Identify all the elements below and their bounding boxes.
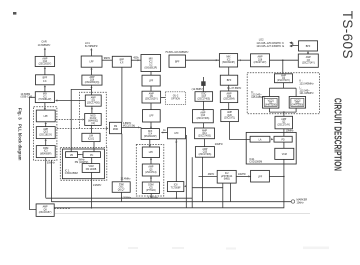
svg-text:(2SC2954(O)): (2SC2954(O)) <box>85 82 100 84</box>
svg-text:Q5: Q5 <box>149 169 153 171</box>
dashed VCO unit enclosure D4 <box>247 73 319 114</box>
wire PC to VCM <box>91 158 93 164</box>
amplifier AMP Q1 <box>85 95 101 106</box>
svg-text:(2SC2714): (2SC2714) <box>145 172 156 174</box>
svg-text:(X40-3290): (X40-3290) <box>292 104 304 106</box>
bus line 1 <box>46 197 193 199</box>
divider DDM IC3 <box>36 146 55 158</box>
amplifier AMP Q13 <box>193 110 214 123</box>
filter LPF <box>142 75 160 86</box>
amplifier AMP Q14 <box>35 56 54 66</box>
svg-text:Q20: Q20 <box>227 115 232 117</box>
svg-text:10kHz: 10kHz <box>297 201 305 204</box>
wire PLL IC out <box>54 159 284 207</box>
svg-text:CXD1058M: CXD1058M <box>65 172 78 175</box>
svg-text:36~37.5MHz: 36~37.5MHz <box>227 87 242 90</box>
amplifier AMP Q2 <box>275 116 293 129</box>
wire <box>91 69 93 75</box>
svg-text:AMP: AMP <box>200 111 205 114</box>
svg-text:LPF: LPF <box>258 176 263 178</box>
wire MIX IC4 to LPF <box>161 132 167 134</box>
svg-text:61.595MHz: 61.595MHz <box>85 45 99 48</box>
wire col A drop <box>202 157 204 202</box>
wire dashed link to MOD <box>56 119 83 121</box>
svg-text:BPF: BPF <box>175 61 180 63</box>
svg-text:(2SC1740S): (2SC1740S) <box>87 103 100 105</box>
svg-text:MIX: MIX <box>149 58 154 60</box>
wire <box>91 125 93 133</box>
wire LPF-IC8 column <box>175 139 177 182</box>
vco VCO1 <box>263 97 279 109</box>
oscillator X'tal OSC <box>112 182 130 193</box>
wire CPU drops <box>222 183 224 208</box>
svg-text:32.4MHz: 32.4MHz <box>120 177 131 180</box>
svg-text:AMP: AMP <box>43 206 48 209</box>
svg-text:123.045MHz: 123.045MHz <box>299 82 314 85</box>
filter LPF right of MIX IC4 <box>168 128 186 139</box>
amplifier AMP Q18 <box>251 54 270 67</box>
svg-text:(PT7022): (PT7022) <box>146 190 156 192</box>
filter LPF (LO1) <box>81 56 102 67</box>
dashed unit enclosure D2 <box>79 92 106 147</box>
wire <box>204 139 206 147</box>
wire CPU to LPF <box>236 175 250 177</box>
wire <box>150 176 152 182</box>
switch IC8 <box>167 182 183 192</box>
wire BPF down to FM MOD <box>121 67 123 122</box>
filter LPF 3 <box>142 147 159 158</box>
wire into PLL IC <box>283 129 285 137</box>
svg-text:1/2MHz: 1/2MHz <box>93 184 102 187</box>
filter BPF C.F <box>36 75 55 85</box>
filter LPF (CPU) <box>251 170 270 182</box>
svg-text:PLL block diagram: PLL block diagram <box>18 124 23 161</box>
wire <box>150 122 152 129</box>
wire right rail into IC8 <box>185 135 187 208</box>
svg-text:Q2: Q2 <box>282 122 286 124</box>
svg-text:LPF: LPF <box>149 152 154 154</box>
filter BPF (colB) <box>220 75 237 85</box>
svg-text:(2SC1815Y): (2SC1815Y) <box>145 99 158 101</box>
svg-text:BPF: BPF <box>227 80 232 82</box>
svg-text:10MHz: 10MHz <box>238 173 247 176</box>
svg-text:1/2: 1/2 <box>149 64 153 66</box>
vco VCM block <box>275 148 294 159</box>
faint fold line <box>55 213 310 215</box>
svg-text:4MHz: 4MHz <box>208 173 215 176</box>
filter LPF <box>36 110 55 122</box>
wire MIX input from left rail <box>30 97 37 209</box>
prescaler PC <box>83 152 101 158</box>
node junction under Q16 <box>91 85 93 95</box>
svg-text:(12.8MHz): (12.8MHz) <box>192 88 204 91</box>
svg-text:FM: FM <box>114 126 117 128</box>
wire Q20 to PLL IC <box>230 122 251 140</box>
mixer MIX IC4 <box>141 129 159 140</box>
svg-text:LA: LA <box>259 139 262 142</box>
svg-text:IC3: IC3 <box>44 151 48 153</box>
svg-text:AMP: AMP <box>227 92 232 95</box>
svg-text:123.045~127.045MHz :E: 123.045~127.045MHz :E <box>256 45 284 48</box>
svg-text:Q15: Q15 <box>44 132 49 134</box>
wire VR-PC arrow <box>78 154 82 156</box>
wire IC8 out drop <box>175 192 177 199</box>
svg-text:C.F.: C.F. <box>43 81 47 83</box>
divider DDM IC5 <box>142 182 159 194</box>
limiter LIM IC101 <box>82 133 100 141</box>
svg-text:Q18: Q18 <box>258 59 263 61</box>
svg-text:1k: 1k <box>163 129 166 132</box>
wire <box>45 123 47 126</box>
phase comp VR <box>66 152 78 158</box>
svg-text:GU-2: GU-2 <box>173 96 179 98</box>
svg-text:AMP: AMP <box>258 56 263 59</box>
filter BPF (wide) <box>169 55 186 67</box>
svg-text:9MHz: 9MHz <box>104 57 111 60</box>
svg-text:(2SC1971): (2SC1971) <box>224 118 235 120</box>
arrow <box>271 138 273 140</box>
wire AMP Q9 to GU-2 <box>161 97 166 99</box>
modulator FM MOD <box>110 122 122 133</box>
svg-text:AMP: AMP <box>149 92 154 95</box>
wire <box>228 103 230 110</box>
wire <box>307 53 309 55</box>
svg-text:VCM: VCM <box>282 154 287 156</box>
wire second drop <box>50 160 52 202</box>
mixer MIX IC1 <box>35 92 54 103</box>
svg-text:(X40-3290): (X40-3290) <box>265 104 277 106</box>
dashed unit enclosure D3 <box>136 145 164 197</box>
wire <box>44 68 46 75</box>
svg-text:(2SC2954): (2SC2954) <box>223 99 234 101</box>
wire <box>150 103 152 110</box>
svg-text:AMP: AMP <box>43 128 48 131</box>
svg-text:TS-60S: TS-60S <box>340 11 355 59</box>
svg-text:(×2): (×2) <box>91 122 95 125</box>
phase det PD <box>274 136 292 142</box>
svg-text:IC101: IC101 <box>88 138 95 140</box>
wire AMP Q18 to BPF/VCO <box>270 59 299 61</box>
svg-text:BPF: BPF <box>306 46 311 48</box>
amplifier AMP Q8 <box>36 204 54 217</box>
wire <box>150 72 152 76</box>
svg-text:LPF: LPF <box>89 62 94 64</box>
mixer MIX IC6 <box>219 54 237 67</box>
wire <box>203 101 205 109</box>
svg-text:(2SC1740S): (2SC1740S) <box>197 99 210 101</box>
page corner mark <box>13 12 16 15</box>
svg-text:TC7S66F: TC7S66F <box>171 188 181 190</box>
svg-text:Q8: Q8 <box>44 209 48 211</box>
svg-text:(SSB·CW): (SSB·CW) <box>21 95 33 98</box>
svg-text:BPF: BPF <box>43 78 48 80</box>
svg-text:µPD78C14: µPD78C14 <box>221 176 233 178</box>
wire FM MOD to MIX IC4 <box>122 126 142 128</box>
wire arrow up to LO1 <box>90 50 92 57</box>
amplifier AMP Q15 <box>36 127 55 139</box>
svg-text:(2SC1740S): (2SC1740S) <box>199 154 212 156</box>
bleed-through smudges <box>128 247 329 250</box>
svg-text:121.045MHz: 121.045MHz <box>299 92 314 95</box>
wire PLL out to bus <box>91 172 93 207</box>
wire DDM out to bus <box>45 158 47 198</box>
svg-text:Q3: Q3 <box>307 60 311 62</box>
svg-text:(2SC1740S): (2SC1740S) <box>197 118 210 120</box>
filter BPF (top right) <box>299 41 318 51</box>
svg-text:DDM: DDM <box>148 185 153 187</box>
svg-text:(SN16913P): (SN16913P) <box>144 136 157 138</box>
wire BPF to MIX IC2 with label <box>131 59 141 61</box>
amplifier AMP Q5 <box>142 164 159 176</box>
wire to CPU <box>191 157 193 208</box>
svg-text:PC: PC <box>90 155 94 157</box>
svg-text:(2SC1815Y): (2SC1815Y) <box>39 212 52 214</box>
svg-text:LPF: LPF <box>174 133 179 135</box>
amplifier AMP Q14b <box>195 128 215 139</box>
dashed control line into FM MOD <box>57 127 108 129</box>
svg-text:BPF: BPF <box>120 60 125 62</box>
svg-text:IC2: IC2 <box>149 61 153 63</box>
wire arrow up to CAR <box>44 49 46 57</box>
svg-text:X.F.: X.F. <box>120 63 124 65</box>
svg-text:AMP: AMP <box>42 57 47 60</box>
svg-text:(SN16913P): (SN16913P) <box>222 62 235 64</box>
crystal X1 12.8MHz <box>202 77 204 92</box>
cpu IC2 <box>217 170 236 183</box>
svg-text:(2SC1740S): (2SC1740S) <box>198 136 211 138</box>
wire LIM to PC <box>93 142 95 152</box>
option GU-2 <box>165 92 185 105</box>
wire MIX to LPF <box>44 103 46 109</box>
svg-text:(2SC2714Y): (2SC2714Y) <box>254 62 267 64</box>
svg-text:CXD1000M: CXD1000M <box>249 161 262 164</box>
wire DDM out <box>150 194 152 199</box>
vco VCO2 <box>289 97 305 109</box>
amplifier AMP Q20 <box>221 110 239 122</box>
amplifier AMP Q10 <box>220 91 237 103</box>
dashed unit enclosure D1 <box>34 107 57 160</box>
svg-text:AMP: AMP <box>227 111 232 114</box>
svg-text:455k: 455k <box>133 57 139 60</box>
svg-text:IC2: IC2 <box>225 173 229 175</box>
svg-text:(M54959P): (M54959P) <box>40 153 52 155</box>
vco VCM block col2 <box>82 164 100 173</box>
svg-text:AMP: AMP <box>90 76 95 79</box>
wire <box>283 142 285 148</box>
wire arrows to LO2 <box>291 42 293 44</box>
svg-text:AMP: AMP <box>202 129 207 132</box>
wire <box>228 85 230 91</box>
amplifier AMP Q4 <box>275 74 293 83</box>
filter LPF 2 <box>143 110 161 122</box>
filter BPF (9MHz) <box>112 56 131 67</box>
wire LPF to BPF with label <box>102 59 112 61</box>
svg-text:MOD: MOD <box>113 129 119 131</box>
svg-text:Q13: Q13 <box>201 115 206 117</box>
wire BPF to MIX (colB) <box>186 59 220 61</box>
svg-text:(2SC1815Y): (2SC1815Y) <box>39 134 52 136</box>
svg-text:(SN16913P): (SN16913P) <box>144 67 157 69</box>
wire MIX IC4 into D3 <box>149 139 151 147</box>
wire <box>150 158 152 165</box>
marker circle <box>291 200 294 203</box>
svg-text:AMP: AMP <box>148 166 153 169</box>
wire <box>228 67 230 75</box>
svg-text:PD: PD <box>281 140 285 142</box>
svg-text:75.845~103.845MHz: 75.845~103.845MHz <box>165 51 189 54</box>
oscillator OSC Q17 <box>195 92 213 102</box>
svg-text:IC3: IC3 <box>227 59 231 61</box>
amplifier AMP Q16 <box>82 75 102 85</box>
wire AMP Q8 out dashed <box>54 207 70 209</box>
svg-text:AMP: AMP <box>91 96 96 99</box>
modulator MOD D1 <box>85 114 102 126</box>
svg-text:DDM: DDM <box>43 148 48 150</box>
amplifier AMP Q9 <box>142 91 161 103</box>
svg-text:(M65): (M65) <box>224 179 230 181</box>
svg-text:Q6.Q7: Q6.Q7 <box>118 189 125 191</box>
svg-text:OSC: OSC <box>119 187 124 189</box>
svg-text:Fig. 3: Fig. 3 <box>18 108 23 120</box>
PLL IC container <box>246 132 296 164</box>
PLL unit box <box>62 149 104 179</box>
svg-text:LIM: LIM <box>89 135 93 137</box>
bus line 2 to marker <box>51 201 291 203</box>
svg-text:AMP: AMP <box>202 148 207 151</box>
mixer MIX IC2 <box>141 55 161 72</box>
svg-text:IC8: IC8 <box>174 185 178 187</box>
svg-text:MIX: MIX <box>226 57 231 59</box>
svg-text:OPTION: OPTION <box>171 99 180 101</box>
svg-text:CIRCUIT DESCRIPTION: CIRCUIT DESCRIPTION <box>332 98 344 171</box>
wire <box>150 86 152 91</box>
wire LPF to rail <box>269 175 284 177</box>
wire <box>45 140 47 146</box>
svg-text:10.695MHz: 10.695MHz <box>38 44 52 47</box>
wire X'tal column <box>121 134 123 182</box>
svg-text:(2SC2714Y): (2SC2714Y) <box>302 63 315 65</box>
svg-text:AMP: AMP <box>306 56 311 59</box>
wire <box>44 86 46 92</box>
svg-text:X'tal: X'tal <box>119 183 124 186</box>
wire <box>203 123 205 128</box>
wire into CPU <box>199 175 218 177</box>
svg-text:LPF: LPF <box>44 116 49 118</box>
svg-text:(TC5081AP): (TC5081AP) <box>39 98 52 101</box>
svg-text:(2SC1740Y): (2SC1740Y) <box>277 80 290 82</box>
svg-text:VR: VR <box>70 155 74 157</box>
wire AMP Q4 split <box>269 83 296 97</box>
svg-text:IC5: IC5 <box>149 187 153 189</box>
svg-text:LPF: LPF <box>149 81 154 83</box>
prescaler block <box>250 136 270 142</box>
svg-text:20MHz: 20MHz <box>215 143 224 146</box>
svg-text:LPF: LPF <box>149 116 154 118</box>
svg-text:FM 1400B: FM 1400B <box>86 169 97 171</box>
svg-text:AMP: AMP <box>281 118 286 121</box>
dashed PLL unit enclosure D5 <box>60 147 107 180</box>
svg-text:(2SC2714Y): (2SC2714Y) <box>277 124 290 126</box>
svg-text:(2SC1815Y): (2SC1815Y) <box>39 64 52 66</box>
wire VCO join <box>269 108 296 112</box>
wire + junction <box>91 106 93 113</box>
amplifier AMP Q3 <box>298 54 318 67</box>
wire OSC out <box>121 192 123 201</box>
wire AMP Q1 to MIX IC1 <box>57 100 86 102</box>
wire MIX to AMP Q18 <box>238 59 251 61</box>
amplifier AMP Q15b <box>195 147 214 158</box>
